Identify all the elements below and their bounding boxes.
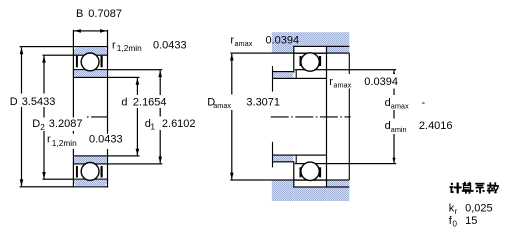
svg-text:0.0394: 0.0394 <box>364 76 398 88</box>
svg-text:d: d <box>385 97 391 109</box>
svg-text:D: D <box>10 96 18 108</box>
svg-text:D: D <box>32 118 40 130</box>
svg-text:B: B <box>76 8 83 20</box>
svg-text:amax: amax <box>235 39 253 48</box>
svg-text:r: r <box>47 133 51 145</box>
svg-text:2: 2 <box>40 122 45 132</box>
svg-text:0.0433: 0.0433 <box>89 133 123 145</box>
svg-text:d: d <box>385 120 391 132</box>
svg-text:r: r <box>112 40 116 52</box>
svg-text:amin: amin <box>391 125 407 134</box>
svg-text:0,025: 0,025 <box>465 203 493 215</box>
svg-text:0.7087: 0.7087 <box>88 8 122 20</box>
svg-text:2.1654: 2.1654 <box>133 96 167 108</box>
svg-text:3.2087: 3.2087 <box>49 118 83 130</box>
svg-text:-: - <box>422 97 426 109</box>
svg-text:amax: amax <box>333 81 351 90</box>
svg-text:3.5433: 3.5433 <box>22 96 56 108</box>
svg-text:amax: amax <box>213 101 231 110</box>
svg-text:1,2min: 1,2min <box>117 43 142 53</box>
svg-text:0.0433: 0.0433 <box>153 40 187 52</box>
svg-text:d: d <box>121 96 127 108</box>
svg-text:1: 1 <box>150 122 155 132</box>
svg-text:15: 15 <box>465 215 477 227</box>
svg-text:2.4016: 2.4016 <box>419 120 453 132</box>
svg-text:1,2min: 1,2min <box>52 138 77 148</box>
svg-text:0: 0 <box>453 220 458 229</box>
svg-text:3.3071: 3.3071 <box>246 97 280 109</box>
svg-text:2.6102: 2.6102 <box>162 118 196 130</box>
svg-text:0.0394: 0.0394 <box>266 34 300 46</box>
svg-text:amax: amax <box>391 101 409 110</box>
svg-text:r: r <box>455 207 458 216</box>
